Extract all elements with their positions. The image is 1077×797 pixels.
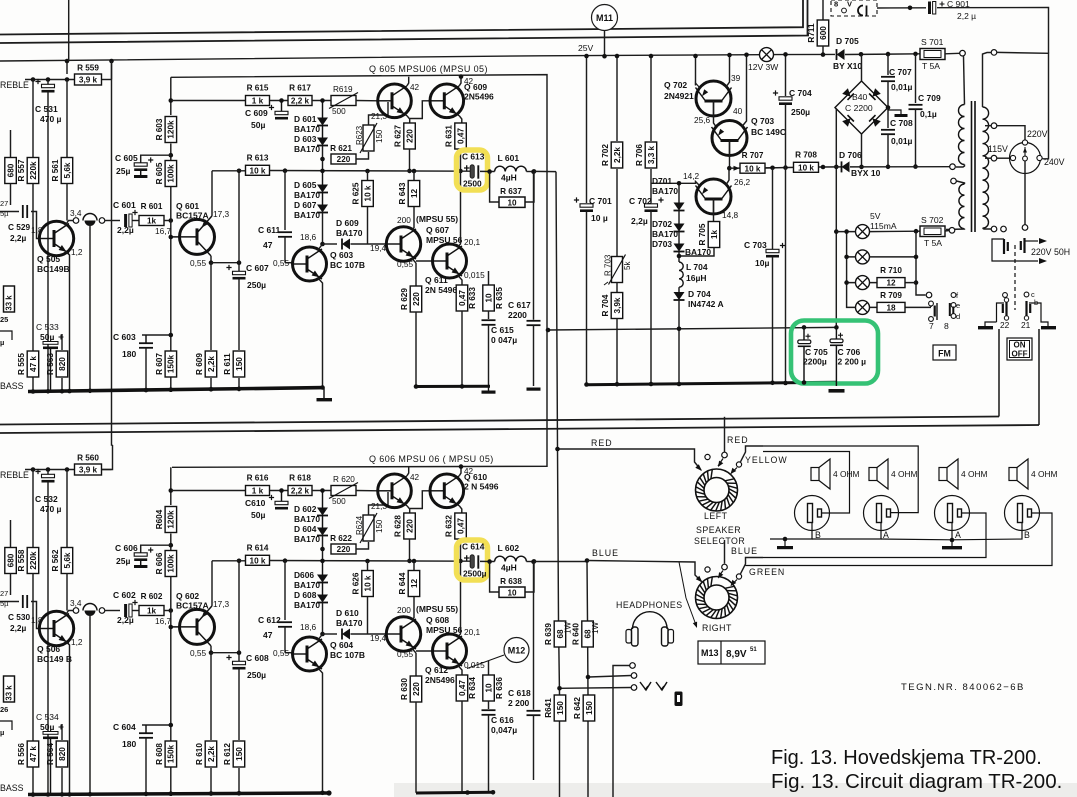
wire Q607 collector xyxy=(412,618,414,620)
svg-text:T 5A: T 5A xyxy=(924,238,942,248)
wire mains arrows xyxy=(992,238,1047,264)
svg-text:Q 602: Q 602 xyxy=(176,591,199,601)
value 1,8 xyxy=(31,615,43,625)
wire Q702 base feed xyxy=(695,56,697,86)
svg-text:18,6: 18,6 xyxy=(300,232,317,242)
connector circle right xyxy=(99,608,105,614)
left fragment mu2 xyxy=(0,728,4,737)
svg-text:51: 51 xyxy=(750,647,757,653)
wire C702 down xyxy=(650,212,652,385)
node M12 xyxy=(504,638,529,663)
wire diode chain down 2 xyxy=(322,213,324,245)
svg-text:C 2200: C 2200 xyxy=(845,103,873,113)
wire R561 bottom xyxy=(66,574,68,611)
connector circle left xyxy=(73,608,79,614)
svg-text:25µ: 25µ xyxy=(116,166,130,176)
wire green arrow xyxy=(731,580,738,587)
wire Q609 collector xyxy=(459,467,461,476)
wire C707-mid xyxy=(887,81,889,107)
svg-text:16µH: 16µH xyxy=(686,273,707,283)
svg-text:R623: R623 xyxy=(355,125,364,145)
wire R605 down xyxy=(170,577,172,794)
wire D609 to Q607 xyxy=(351,633,387,635)
svg-text:1k: 1k xyxy=(147,217,157,226)
svg-text:2N 5496: 2N 5496 xyxy=(425,285,457,295)
wire bridge right to C708 xyxy=(887,108,889,129)
resistor R702 xyxy=(601,142,623,168)
wire M12 pointer xyxy=(467,655,504,669)
wire treble bus xyxy=(0,60,1,62)
wire D704 down xyxy=(678,300,680,384)
capacitor C 607 xyxy=(226,265,245,280)
label R 620 xyxy=(333,475,355,484)
wire 115V to selector xyxy=(997,157,1011,159)
transistor Q702 xyxy=(696,81,732,116)
svg-text:0,015: 0,015 xyxy=(464,270,485,280)
resistor R 555 xyxy=(17,351,39,377)
wire top frame line 1 xyxy=(0,0,803,35)
wire C531 down xyxy=(47,482,49,795)
wire C 618 column ch2 xyxy=(533,562,535,710)
node M11 xyxy=(592,5,618,31)
svg-text:10 k: 10 k xyxy=(363,575,372,591)
svg-text:S 701: S 701 xyxy=(921,37,944,47)
speaker icon sp1 xyxy=(811,459,830,489)
capacitor C 617 xyxy=(527,321,541,325)
svg-text:C 612: C 612 xyxy=(258,615,281,625)
svg-text:IN4742 A: IN4742 A xyxy=(688,299,724,309)
wire bus to output xyxy=(534,170,556,172)
svg-text:25: 25 xyxy=(0,315,8,324)
svg-text:BA170: BA170 xyxy=(294,534,320,544)
svg-text:R 562: R 562 xyxy=(51,549,60,571)
svg-text:1k: 1k xyxy=(147,607,157,616)
resistor R710 xyxy=(877,266,905,288)
svg-text:120k: 120k xyxy=(167,120,176,139)
wire R705 down xyxy=(679,248,714,257)
value 500 xyxy=(332,107,346,116)
lamp L3 xyxy=(856,276,870,290)
value 16,7 xyxy=(155,226,172,236)
svg-text:220: 220 xyxy=(337,545,351,554)
wire R706 down xyxy=(650,169,652,203)
svg-text:Q 703: Q 703 xyxy=(751,116,774,126)
selector pin right xyxy=(1037,155,1042,160)
text Fig 13 Hovedskjema xyxy=(771,747,1042,769)
wire 240V loop xyxy=(997,52,1049,158)
label A S3 xyxy=(955,530,961,540)
svg-text:2,2k: 2,2k xyxy=(207,746,216,762)
wire Q603 collector xyxy=(318,634,323,640)
svg-text:BC149B: BC149B xyxy=(37,264,70,274)
svg-text:240V: 240V xyxy=(1044,157,1065,167)
label T5A b xyxy=(924,238,942,248)
svg-text:C 705: C 705 xyxy=(805,347,828,357)
svg-text:50µ: 50µ xyxy=(251,510,265,520)
value 42 a xyxy=(410,83,420,92)
svg-text:16,7: 16,7 xyxy=(155,226,172,236)
svg-text:0,55: 0,55 xyxy=(273,258,290,268)
svg-text:8,9V: 8,9V xyxy=(726,649,747,660)
diode D705 xyxy=(837,49,845,60)
label R703 xyxy=(604,254,613,276)
svg-text:33 k: 33 k xyxy=(0,280,2,295)
svg-text:150: 150 xyxy=(556,701,565,715)
svg-text:40: 40 xyxy=(733,106,743,116)
svg-text:L 704: L 704 xyxy=(686,262,708,272)
svg-text:R 631: R 631 xyxy=(445,125,454,147)
ground switch right xyxy=(1041,326,1056,329)
wire output ground bus xyxy=(416,385,490,388)
connector pin 7 feed xyxy=(926,292,932,298)
text fragment 27 xyxy=(0,589,8,598)
capacitor C703 xyxy=(766,243,785,258)
ground output bus xyxy=(482,387,496,394)
svg-text:R 613: R 613 xyxy=(247,154,269,163)
svg-text:R 608: R 608 xyxy=(155,743,164,765)
label 240V xyxy=(1044,157,1065,167)
wire Q609 collector xyxy=(459,77,461,86)
wire R708 to D706 xyxy=(818,166,841,168)
wire PSU ground bus xyxy=(587,382,837,385)
svg-text:BLUE: BLUE xyxy=(731,546,758,556)
wire socket loop 3 xyxy=(763,513,986,558)
transistor Q703 xyxy=(712,121,748,156)
svg-text:200: 200 xyxy=(397,215,411,225)
label 115V xyxy=(988,144,1008,154)
wire ch2 output column xyxy=(587,562,588,797)
svg-text:21: 21 xyxy=(1021,320,1031,330)
diode D 609 xyxy=(342,239,350,250)
wire diode chain down xyxy=(322,146,324,172)
ground C706 xyxy=(829,389,845,393)
wire R633 down xyxy=(461,311,463,387)
label f xyxy=(956,291,959,300)
capacitor C702 xyxy=(645,197,664,212)
svg-text:C 614: C 614 xyxy=(462,542,485,552)
svg-text:2,2µ: 2,2µ xyxy=(117,615,134,625)
wire C611 down xyxy=(284,237,286,263)
value 3,4 xyxy=(70,208,82,218)
svg-text:0,047µ: 0,047µ xyxy=(491,725,517,735)
svg-text:12: 12 xyxy=(410,189,419,199)
svg-text:150k: 150k xyxy=(167,744,176,763)
svg-text:R 560: R 560 xyxy=(77,454,99,463)
wire lamp3 via R710 xyxy=(870,282,917,284)
resistor R 556 xyxy=(17,741,39,767)
label Q 606 xyxy=(369,454,494,464)
svg-text:M13: M13 xyxy=(701,648,719,658)
label R619 xyxy=(333,85,353,94)
value 26,2 xyxy=(734,177,751,187)
diode D706 xyxy=(842,161,850,172)
wire R560 feed from frame xyxy=(102,445,113,470)
resistor R639 xyxy=(544,621,566,647)
svg-text:D 603: D 603 xyxy=(294,134,317,144)
svg-text:ON: ON xyxy=(1014,341,1026,350)
svg-text:C 602: C 602 xyxy=(113,590,136,600)
svg-text:10: 10 xyxy=(484,683,493,693)
net label TREBLE xyxy=(0,80,29,90)
svg-text:SPEAKER: SPEAKER xyxy=(696,525,741,535)
wire lamp2 right xyxy=(870,256,917,258)
resistor R 628 xyxy=(394,513,416,539)
value 39 xyxy=(731,73,741,83)
svg-text:BA170: BA170 xyxy=(336,618,363,628)
wire input xyxy=(0,601,19,603)
svg-text:Q 611: Q 611 xyxy=(425,275,448,285)
wire Q605 collector xyxy=(407,467,409,476)
wire Q601 collector down xyxy=(210,646,212,653)
wire R561 top xyxy=(66,80,68,158)
value 500 xyxy=(332,497,346,506)
svg-text:2N4921: 2N4921 xyxy=(664,91,694,101)
socket S3 xyxy=(935,496,970,531)
wire base row xyxy=(171,490,246,492)
wire R 636 top xyxy=(488,661,490,675)
svg-text:R 707: R 707 xyxy=(742,151,764,160)
svg-text:25µ: 25µ xyxy=(116,556,130,566)
wire R623 top xyxy=(369,492,389,515)
value 0,55 c xyxy=(397,649,414,659)
wire lamp common xyxy=(836,232,855,308)
wire R631 down xyxy=(460,539,462,561)
wire Q605 emitter xyxy=(407,506,410,513)
svg-text:R 615: R 615 xyxy=(247,84,269,93)
svg-text:150k: 150k xyxy=(167,354,176,373)
wire treble node xyxy=(25,469,75,471)
resistor R 637 xyxy=(490,172,534,203)
capacitor C707 xyxy=(881,77,895,81)
value 16,7 xyxy=(155,616,172,626)
connector S702 out xyxy=(949,228,955,234)
svg-text:R 703: R 703 xyxy=(604,254,613,276)
svg-text:18: 18 xyxy=(886,304,896,313)
svg-text:5k: 5k xyxy=(623,261,632,270)
wire C611 down xyxy=(284,627,286,653)
jack plug xyxy=(675,692,683,707)
capacitor C 529 xyxy=(23,205,27,218)
connector sec bottom a xyxy=(991,226,997,232)
wire long vertical x111 xyxy=(112,61,113,445)
resistor R 558 xyxy=(17,548,39,574)
left fragment wire2 xyxy=(0,721,12,730)
svg-text:BA170: BA170 xyxy=(685,247,711,257)
wire R623 top xyxy=(369,102,389,125)
resistor R704 xyxy=(601,293,623,319)
capacitor C901 xyxy=(928,2,945,15)
wire socket loop 4 xyxy=(746,513,1053,566)
svg-text:R 609: R 609 xyxy=(195,353,204,375)
value 19,4 xyxy=(370,243,387,253)
wire to Q603 base xyxy=(285,652,292,654)
capacitor C705 xyxy=(798,327,811,382)
svg-text:1,2: 1,2 xyxy=(71,637,83,647)
resistor R 606 xyxy=(155,551,177,577)
wire secondary top tap xyxy=(983,53,992,108)
wire Q605 collector xyxy=(407,77,409,86)
resistor R709 xyxy=(877,291,905,313)
value 18,6 xyxy=(300,622,317,632)
connector mains plug a xyxy=(992,239,1008,254)
transistor Q 607 xyxy=(386,227,420,261)
wire junction arrow R707 xyxy=(734,166,740,171)
wire R635-C615 xyxy=(488,701,490,709)
wire Q505 collector xyxy=(65,611,73,617)
svg-text:16,7: 16,7 xyxy=(155,616,172,626)
wire main ground bus ch2 xyxy=(28,793,329,795)
wire RED2 from frame xyxy=(724,417,726,452)
svg-text:R 607: R 607 xyxy=(155,353,164,375)
potentiometer R703 xyxy=(609,255,626,285)
svg-text:R 629: R 629 xyxy=(400,288,409,310)
net label BASS xyxy=(0,381,24,391)
wire Q505 collector xyxy=(65,221,73,227)
label 21 xyxy=(1021,320,1031,330)
svg-text:C 529: C 529 xyxy=(8,222,31,232)
svg-text:R 637: R 637 xyxy=(500,187,522,196)
value 0,015 xyxy=(464,660,485,670)
value 17,3 xyxy=(213,209,230,219)
svg-text:26,2: 26,2 xyxy=(734,177,751,187)
value 0,55 a xyxy=(190,258,207,268)
capacitor C709 xyxy=(909,105,923,109)
svg-text:R 610: R 610 xyxy=(195,743,204,765)
svg-text:C 531: C 531 xyxy=(35,104,58,114)
wire 680 bottom xyxy=(10,184,12,206)
wire C707 top xyxy=(887,54,889,75)
svg-text:2200: 2200 xyxy=(508,310,527,320)
svg-text:R 606: R 606 xyxy=(155,552,164,574)
wire diode chain down 2 xyxy=(322,603,324,635)
wire socket loop 2 xyxy=(763,452,850,514)
svg-text:D 706: D 706 xyxy=(839,150,862,160)
svg-text:C 607: C 607 xyxy=(246,263,269,273)
resistor R 633 xyxy=(456,285,477,311)
transformer T1 secondary lower winding xyxy=(983,168,989,228)
wire C701 column top xyxy=(586,56,588,203)
resistor R 602 xyxy=(139,592,164,616)
svg-text:R 602: R 602 xyxy=(141,592,163,601)
svg-text:500: 500 xyxy=(332,497,346,506)
wire R601 out xyxy=(164,610,171,612)
wire Q607 emitter xyxy=(412,649,416,654)
wire R 643 top xyxy=(413,171,415,180)
connector link semicircle xyxy=(83,214,97,226)
wire middle frame line 1 xyxy=(0,417,999,425)
svg-text:C 604: C 604 xyxy=(113,722,136,732)
connector circle right xyxy=(99,218,105,224)
switch contact 22 xyxy=(1003,298,1009,320)
svg-text:22: 22 xyxy=(1000,320,1010,330)
resistor R 564 xyxy=(46,741,68,767)
svg-text:150: 150 xyxy=(375,519,384,533)
label A S2 xyxy=(883,530,889,540)
svg-text:BA170: BA170 xyxy=(652,229,678,239)
svg-text:C 707: C 707 xyxy=(889,67,912,77)
svg-text:2N5496: 2N5496 xyxy=(425,675,455,685)
svg-text:680: 680 xyxy=(6,163,15,177)
svg-text:42: 42 xyxy=(464,467,474,476)
net label TREBLE xyxy=(0,470,29,480)
svg-text:115V: 115V xyxy=(988,144,1008,154)
capacitor C 602 xyxy=(124,600,137,617)
svg-text:R711: R711 xyxy=(807,23,816,43)
wire Q607 emitter xyxy=(412,259,416,264)
svg-text:C 611: C 611 xyxy=(258,225,280,235)
lamp L4 xyxy=(856,300,870,314)
svg-text:R641: R641 xyxy=(544,698,553,718)
wire treble node xyxy=(25,79,75,81)
connector sec bottom b xyxy=(1001,226,1007,232)
value 19,4 xyxy=(370,633,387,643)
resistor R 562 xyxy=(51,548,73,574)
left edge fragments ch1 mid xyxy=(0,280,15,312)
wire lamp1 to S702 xyxy=(870,230,921,232)
svg-text:BC 149C: BC 149C xyxy=(751,127,786,137)
connector 8 xyxy=(950,293,956,319)
svg-text:R 705: R 705 xyxy=(698,223,707,245)
svg-text:1,2: 1,2 xyxy=(71,247,83,257)
wire R621 to R623 xyxy=(356,542,369,549)
capacitor C 531 xyxy=(47,80,49,85)
svg-text:10 k: 10 k xyxy=(250,166,266,175)
diode D702 xyxy=(674,224,685,232)
wire R631 down xyxy=(460,149,462,171)
wire secondary mid tap 220V xyxy=(985,125,991,127)
svg-text:D 604: D 604 xyxy=(294,524,317,534)
svg-text:R 622: R 622 xyxy=(330,534,352,543)
svg-text:D703: D703 xyxy=(652,239,672,249)
svg-text:5µ: 5µ xyxy=(0,209,9,218)
wire C 612 top xyxy=(284,561,286,620)
wire input xyxy=(0,211,19,213)
highlight yellow box xyxy=(457,150,488,190)
svg-text:RED: RED xyxy=(727,435,749,445)
svg-text:OFF: OFF xyxy=(1012,350,1028,359)
svg-text:250µ: 250µ xyxy=(791,107,810,117)
svg-text:R 642: R 642 xyxy=(573,697,582,719)
svg-text:150: 150 xyxy=(235,357,244,371)
svg-text:0,47: 0,47 xyxy=(458,680,467,696)
wire C 608 column xyxy=(238,561,240,661)
wire R557 bottom xyxy=(32,184,34,392)
svg-text:R 634: R 634 xyxy=(468,677,477,699)
svg-text:2,2µ: 2,2µ xyxy=(631,216,648,226)
svg-text:e: e xyxy=(956,301,960,310)
label 4 OHM sp2 xyxy=(891,469,918,479)
svg-text:47 k: 47 k xyxy=(29,356,38,372)
svg-text:C 617: C 617 xyxy=(508,300,531,310)
box 8V dashed xyxy=(831,0,877,16)
capacitor C 615 xyxy=(482,320,496,325)
wire R604 top xyxy=(170,467,172,505)
wire C703 down xyxy=(772,257,774,383)
capacitor C 614 xyxy=(464,555,478,569)
svg-text:BA170: BA170 xyxy=(294,514,320,524)
transistor Q 610 xyxy=(430,474,464,508)
wire Q704 collector up xyxy=(726,168,729,185)
svg-text:R 630: R 630 xyxy=(400,678,409,700)
svg-text:33 k: 33 k xyxy=(5,685,14,701)
wire middle frame line 2 xyxy=(0,425,1039,433)
wire C704 top xyxy=(785,54,787,96)
svg-text:2200µ: 2200µ xyxy=(803,357,827,367)
resistor R604 xyxy=(155,507,177,533)
svg-text:C 534: C 534 xyxy=(36,712,59,722)
wire D703 down xyxy=(678,252,680,263)
wire R 635 top xyxy=(488,271,490,285)
